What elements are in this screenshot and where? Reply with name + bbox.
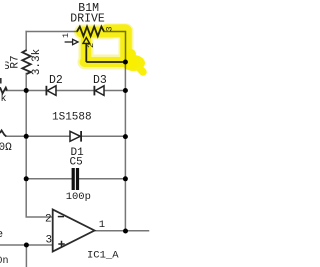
svg-text:e: e (0, 229, 3, 241)
svg-text:D2: D2 (49, 74, 63, 87)
svg-text:DRIVE: DRIVE (70, 13, 105, 26)
svg-text:3: 3 (46, 235, 53, 247)
svg-text:0Ω: 0Ω (0, 142, 12, 154)
svg-text:D3: D3 (93, 74, 107, 87)
svg-text:0n: 0n (0, 256, 9, 267)
svg-text:100p: 100p (66, 191, 91, 203)
svg-text:C5: C5 (70, 157, 83, 169)
svg-text:1S1588: 1S1588 (52, 112, 92, 124)
svg-text:IC1_A: IC1_A (87, 250, 119, 262)
svg-text:k: k (1, 93, 7, 105)
svg-text:2: 2 (45, 214, 52, 226)
svg-text:1: 1 (61, 33, 71, 38)
svg-text:3.3k: 3.3k (31, 48, 43, 75)
svg-text:1: 1 (99, 219, 105, 231)
svg-text:R7: R7 (10, 55, 22, 68)
